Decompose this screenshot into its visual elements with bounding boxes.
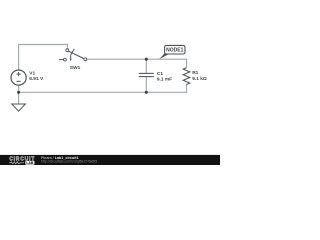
wire R1 top lead [186,59,188,68]
actuator arrowhead [70,59,72,61]
footer watermark bar [0,155,220,165]
svg-text:C1: C1 [157,71,163,77]
CircuitLab logo zigzag [9,162,24,164]
svg-text:9.1 mF: 9.1 mF [157,77,172,83]
pin circle top [66,49,69,52]
svg-text:9.1 kΩ: 9.1 kΩ [192,76,207,82]
voltage source V1 [11,70,26,85]
CircuitLab logo LAB tag [25,161,34,165]
node NODE1 flag box [165,45,185,54]
wire down into switch pin [66,45,68,49]
pin circle left [64,58,67,61]
actuator shaft [70,56,72,59]
junction dot at C1 top node [145,58,148,61]
svg-text:http://circuitlab.com/c/2qf5e2: http://circuitlab.com/c/2qf5e27/6a5f3 [41,159,97,163]
wire V1 bottom lead [18,85,20,92]
switch SW1 [59,49,87,61]
svg-text:LAB: LAB [26,161,34,165]
wire bottom bus [18,91,187,93]
wire V1 top lead vertical [18,45,20,70]
node NODE1 flag tail [159,53,168,60]
wire C1 bottom lead [145,77,147,92]
ground [12,104,26,111]
svg-text:SW1: SW1 [70,65,81,71]
svg-text:NODE1: NODE1 [166,48,183,54]
pin stub left throw [59,59,64,61]
lever [68,51,84,59]
wire ground lead [18,92,20,104]
svg-text:R1: R1 [192,70,198,76]
wire R1 bottom lead [186,84,188,92]
actuator tick [70,49,74,56]
svg-text:V1: V1 [29,70,35,76]
pin circle right [84,58,87,61]
wire top bus right of switch [87,58,187,60]
wire top-left horizontal [18,44,68,46]
capacitor C1 [139,73,154,76]
wire C1 top lead [145,59,147,73]
junction dot at C1 bottom node [145,91,148,94]
junction dot at V1/ground node [17,91,20,94]
svg-text:6.91 V: 6.91 V [29,76,44,82]
resistor R1 [183,68,190,85]
